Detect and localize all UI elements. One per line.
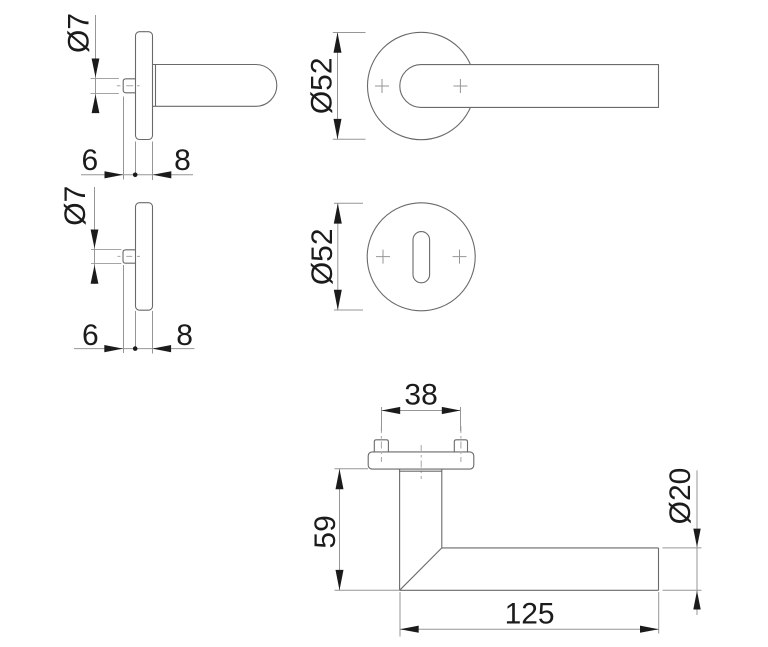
dim Ø7 line (view1)	[95, 15, 97, 113]
lever end	[658, 548, 660, 590]
junction dot	[133, 173, 138, 178]
dim 125 line	[400, 628, 659, 630]
ext line Ø20 top	[663, 547, 702, 549]
arrow left 125	[400, 626, 419, 633]
rose circle	[368, 32, 475, 139]
extension line rose right	[152, 142, 154, 181]
screw post right	[454, 440, 467, 452]
screw cross left	[375, 79, 389, 93]
extension line nub	[123, 265, 125, 353]
ext line bottom	[334, 309, 363, 311]
grip neck ring line	[155, 65, 157, 107]
extension line nub	[123, 97, 125, 180]
neck left line	[399, 469, 401, 590]
lever top	[442, 547, 659, 549]
dim line 6/8 (view1)	[81, 174, 193, 176]
svg-text:Ø7: Ø7	[63, 13, 96, 53]
spindle cylinder lines	[91, 249, 121, 251]
ext line top	[334, 202, 363, 204]
lever bottom	[400, 589, 659, 591]
arrow left (8)	[153, 171, 172, 178]
dim line 6/8 (view2)	[74, 348, 195, 350]
arrow down Ø20	[693, 529, 700, 548]
arrow down Ø52	[334, 290, 342, 310]
svg-text:Ø52: Ø52	[306, 57, 339, 114]
ext line 59 top	[335, 468, 369, 470]
dim 38 line	[382, 410, 461, 412]
post centerline left	[380, 426, 382, 462]
arrow left (8)	[152, 345, 171, 352]
arrow up Ø7	[92, 94, 100, 113]
spindle nub	[123, 250, 136, 263]
ext line bottom	[333, 138, 366, 140]
svg-text:Ø7: Ø7	[59, 186, 92, 226]
ext line 125 right	[658, 592, 660, 634]
extension line plate left	[135, 311, 137, 349]
svg-text:38: 38	[404, 378, 437, 411]
ext line Ø20 bottom	[663, 589, 702, 591]
lever capsule	[400, 65, 659, 108]
escutcheon plate profile	[136, 203, 153, 311]
svg-text:6: 6	[82, 319, 99, 352]
dim Ø20 line	[696, 470, 698, 615]
svg-text:8: 8	[174, 144, 191, 177]
key rose circle	[367, 203, 475, 311]
dim 59 line	[339, 469, 341, 590]
screw post left	[374, 440, 388, 452]
screw cross right	[453, 250, 467, 264]
extension line plate right	[152, 311, 154, 354]
screw cross left	[376, 250, 390, 264]
arrow right 38	[442, 407, 461, 414]
svg-text:125: 125	[505, 597, 555, 630]
arrow right 125	[640, 626, 659, 633]
post centerline right	[460, 426, 462, 462]
dim Ø52 line	[337, 203, 339, 310]
svg-text:8: 8	[176, 319, 193, 352]
arrow up Ø52	[334, 203, 342, 223]
arrow left 38	[382, 407, 401, 414]
junction dot	[133, 346, 138, 351]
ext line top	[333, 32, 366, 34]
arrow up Ø52	[334, 33, 342, 53]
screw cross right	[453, 79, 467, 93]
svg-text:Ø20: Ø20	[664, 468, 697, 525]
svg-text:6: 6	[81, 144, 98, 177]
spindle cylinder lines	[91, 78, 119, 80]
ext line 125 left	[399, 592, 401, 637]
neck flange line	[400, 470, 442, 472]
rose bar	[368, 452, 474, 469]
main centerline	[420, 445, 422, 479]
arrow up 59	[336, 469, 344, 489]
arrow right (6)	[104, 345, 123, 352]
svg-text:59: 59	[309, 515, 342, 548]
ext line 59 bottom	[335, 589, 400, 591]
arrow up Ø20	[693, 591, 700, 610]
arrow down Ø7	[92, 59, 100, 78]
ext line 38 left	[381, 407, 383, 431]
arrow up Ø7	[91, 265, 99, 284]
centerline of spindle	[118, 255, 141, 257]
keyhole	[413, 232, 430, 283]
svg-text:Ø52: Ø52	[306, 228, 339, 285]
centerline of spindle	[117, 85, 140, 87]
arrow down 59	[336, 570, 344, 590]
arrow down Ø7	[91, 230, 99, 249]
dim Ø52 line	[337, 33, 339, 139]
neck right line	[441, 469, 443, 548]
rose plate profile	[136, 32, 153, 140]
spindle nub	[123, 79, 135, 93]
arrow down Ø52	[334, 119, 342, 139]
ext line 38 right	[460, 407, 462, 431]
arrow right (6)	[105, 171, 124, 178]
grip cylinder with round end	[153, 65, 277, 107]
bend diagonal	[400, 548, 442, 590]
dim Ø7 line (view2)	[94, 187, 96, 284]
extension line rose left	[135, 142, 137, 175]
